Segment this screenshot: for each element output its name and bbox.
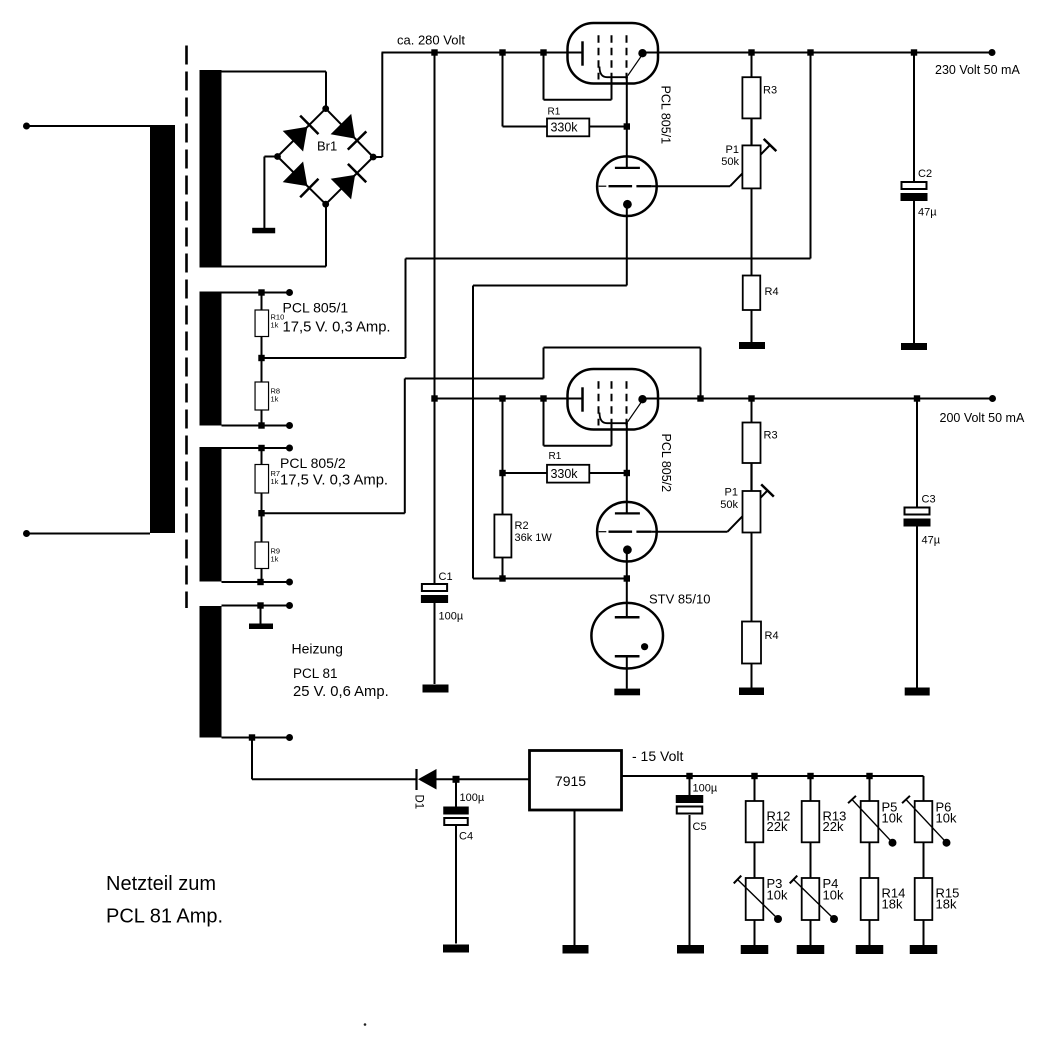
svg-text:10k: 10k — [767, 888, 788, 903]
svg-text:D1: D1 — [413, 795, 425, 810]
svg-text:36k 1W: 36k 1W — [515, 532, 553, 544]
svg-text:100µ: 100µ — [460, 792, 485, 804]
svg-text:R3: R3 — [764, 430, 778, 442]
svg-text:R4: R4 — [765, 286, 779, 298]
svg-text:10k: 10k — [823, 888, 844, 903]
svg-text:C1: C1 — [439, 571, 453, 583]
svg-text:50k: 50k — [720, 499, 738, 511]
svg-text:C4: C4 — [459, 831, 473, 843]
svg-text:PCL 805/2: PCL 805/2 — [280, 455, 346, 471]
svg-text:18k: 18k — [936, 897, 957, 912]
svg-text:200 Volt 50 mA: 200 Volt 50 mA — [940, 411, 1025, 425]
svg-text:PCL 805/2: PCL 805/2 — [659, 434, 673, 493]
svg-text:Br1: Br1 — [317, 139, 337, 154]
svg-text:7915: 7915 — [555, 773, 586, 789]
svg-text:230 Volt 50 mA: 230 Volt 50 mA — [935, 63, 1020, 77]
svg-text:1k: 1k — [271, 555, 279, 564]
svg-text:C2: C2 — [918, 168, 932, 180]
svg-text:- 15 Volt: - 15 Volt — [632, 748, 683, 764]
svg-text:R1: R1 — [548, 106, 561, 117]
svg-text:PCL 81: PCL 81 — [293, 666, 338, 681]
svg-text:P1: P1 — [725, 487, 738, 499]
svg-text:50k: 50k — [721, 156, 739, 168]
svg-text:PCL 81 Amp.: PCL 81 Amp. — [106, 906, 223, 928]
svg-text:R1: R1 — [549, 451, 562, 462]
svg-text:330k: 330k — [550, 467, 578, 481]
svg-text:R4: R4 — [765, 630, 779, 642]
svg-text:C5: C5 — [693, 821, 707, 833]
svg-text:47µ: 47µ — [918, 207, 937, 219]
svg-text:PCL 805/1: PCL 805/1 — [659, 86, 673, 145]
svg-text:1k: 1k — [271, 395, 279, 404]
svg-text:1k: 1k — [271, 477, 279, 486]
svg-text:100µ: 100µ — [439, 611, 464, 623]
svg-text:C3: C3 — [922, 494, 936, 506]
svg-text:47µ: 47µ — [922, 535, 941, 547]
svg-text:Heizung: Heizung — [292, 641, 343, 657]
svg-text:ca. 280 Volt: ca. 280 Volt — [397, 33, 465, 48]
svg-text:100µ: 100µ — [693, 783, 718, 795]
svg-text:Netzteil zum: Netzteil zum — [106, 873, 216, 895]
svg-text:1k: 1k — [271, 321, 279, 330]
svg-text:10k: 10k — [936, 811, 957, 826]
svg-text:22k: 22k — [823, 819, 844, 834]
svg-text:STV 85/10: STV 85/10 — [649, 592, 710, 607]
svg-text:P1: P1 — [726, 144, 739, 156]
svg-text:R2: R2 — [515, 520, 529, 532]
svg-text:25 V. 0,6 Amp.: 25 V. 0,6 Amp. — [293, 684, 389, 700]
svg-text:PCL 805/1: PCL 805/1 — [283, 300, 349, 316]
svg-text:R3: R3 — [763, 85, 777, 97]
svg-text:17,5 V. 0,3 Amp.: 17,5 V. 0,3 Amp. — [280, 473, 388, 489]
svg-text:10k: 10k — [882, 811, 903, 826]
svg-text:22k: 22k — [767, 819, 788, 834]
svg-text:18k: 18k — [882, 897, 903, 912]
svg-text:330k: 330k — [550, 121, 578, 135]
svg-text:17,5 V. 0,3 Amp.: 17,5 V. 0,3 Amp. — [283, 320, 391, 336]
